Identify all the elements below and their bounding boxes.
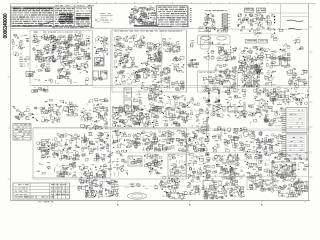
wire bus top right: [268, 4, 309, 50]
junction dots node B+: [274, 16, 275, 23]
output jacks cluster: [278, 178, 300, 198]
dual cap C21 C22 circles: [62, 105, 78, 116]
switch boxes bottom: [258, 177, 278, 192]
parts table T2 (light): [90, 5, 100, 28]
psu reg cluster: [104, 189, 119, 197]
meter box M1: [157, 26, 211, 49]
power amp star cluster: [238, 46, 263, 74]
preamp cluster: [80, 107, 108, 130]
frame F2 bottom cluster: [141, 80, 184, 92]
demod D2 cluster: [114, 52, 135, 68]
motor control cluster: [159, 176, 180, 190]
control logic boxes: [202, 178, 218, 199]
filter stage L1 C2 cluster: [33, 44, 57, 54]
psu wires: [125, 183, 159, 189]
revision table tick dots: [190, 8, 192, 22]
ceramic filter CF1 (dark): [146, 42, 162, 62]
IC U5 comb (pins): [282, 134, 308, 159]
headphone amp cluster: [239, 128, 263, 154]
dark cap pair bottom: [229, 187, 245, 198]
frame F2 header text: [114, 30, 182, 33]
filter switch cluster: [128, 153, 163, 174]
motor M1 with ellipse: [162, 189, 187, 200]
connector J2: [12, 42, 25, 51]
bias boxes row: [262, 44, 290, 68]
parts table T1 dark row: [76, 17, 90, 19]
record amp Q10 with can: [37, 137, 59, 158]
terminal strip boxes: [293, 181, 308, 193]
tape head input cluster: [12, 106, 37, 121]
label below frame F1: [31, 86, 108, 107]
psu filter dark cluster: [85, 190, 103, 198]
subcircuit frame F3: [33, 128, 187, 179]
connector comb J4: [13, 124, 31, 141]
input select boxes: [227, 104, 247, 118]
handwritten revision notes: [129, 6, 156, 26]
aux right cluster: [262, 134, 283, 160]
wire main rail A: [11, 28, 240, 29]
IF amp Q7 cluster: [163, 38, 180, 52]
driver stage left cluster: [203, 46, 237, 82]
wire rail B (double): [32, 86, 310, 88]
bias network R11 cluster: [34, 63, 50, 72]
AGC stage cluster: [73, 34, 90, 47]
trimmer VR1 cluster: [187, 59, 199, 68]
speaker relay cluster: [204, 85, 247, 107]
label group left: [19, 57, 30, 67]
parts table T1 rows right: [75, 8, 91, 26]
aux frame bottom right: [247, 177, 259, 190]
mixer stage cluster: [148, 87, 162, 111]
revision table T4 rows: [157, 7, 186, 25]
border frame left: [8, 4, 11, 201]
parts table T1 header strokes: [13, 8, 53, 9]
border frame bottom ruler: [11, 201, 311, 206]
driver cluster: [187, 97, 200, 106]
buffer boxes stacked: [124, 88, 142, 111]
divider line mid: [186, 30, 188, 92]
mains cable blob: [128, 193, 147, 199]
IF transformer box pair: [198, 35, 231, 45]
electrolytic C15 (dark): [26, 72, 33, 77]
component row above IF box: [206, 26, 228, 33]
wire rail D: [33, 177, 308, 178]
psu transformer cluster: [77, 178, 98, 191]
IC box U202 (hatched): [257, 8, 266, 13]
dolby block cluster: [112, 105, 159, 127]
aux cluster F3 left: [37, 162, 51, 174]
AM osc Q6 cluster: [133, 34, 146, 48]
balance pot cluster: [176, 130, 209, 153]
bias ladder R201-R205: [222, 13, 231, 28]
divider line x162: [162, 31, 236, 177]
selector cluster: [168, 153, 211, 178]
protection circuit cluster: [253, 87, 309, 106]
oscillator Q3 cluster: [56, 34, 72, 50]
parts table T1 rows left: [12, 8, 53, 26]
IC box U201 (hatched): [245, 8, 254, 13]
mixer Q4 cluster: [57, 50, 73, 64]
title block table: [13, 183, 70, 199]
power amp dark core: [241, 64, 260, 87]
label 2xBC337 group: [205, 9, 228, 12]
title text above parts table: [55, 4, 94, 7]
lamp circuit cluster: [204, 190, 227, 199]
tone control cluster 1: [112, 130, 141, 149]
wire rail C: [33, 128, 310, 129]
phono stage cluster: [248, 105, 269, 123]
junction dot column node N1: [53, 37, 54, 62]
svg-text:0006349000: 0006349000: [3, 13, 9, 38]
border frame top ruler: [11, 2, 316, 4]
line amp cluster: [159, 106, 193, 126]
connector J3: [13, 51, 22, 57]
drawing number below title block: [38, 200, 53, 203]
bias osc cluster: [57, 133, 80, 160]
meter driver cluster: [55, 162, 77, 178]
fuse cluster: [284, 152, 308, 178]
subcircuit frame F1: [30, 31, 93, 86]
eq network cluster: [40, 100, 76, 124]
note text below table: [53, 26, 94, 29]
mute circuit cluster: [115, 70, 141, 85]
switch S1 cluster: [94, 45, 107, 56]
push-pull pair Q203 Q204: [237, 13, 263, 26]
AM tuner Q5 cluster: [114, 36, 132, 51]
antenna connector J1: [12, 34, 29, 43]
IC U4 comb (pins): [282, 108, 308, 133]
output filter cluster: [286, 68, 307, 88]
IF stage Q2 cluster: [35, 52, 56, 62]
border frame right: [309, 4, 313, 201]
revision table T4 frame: [157, 6, 189, 26]
transistor pair Q201 Q202: [204, 13, 216, 27]
counter circuit cluster: [217, 178, 238, 191]
frame F1 bottom wires: [34, 78, 89, 86]
AGC stage 2 cluster: [73, 46, 90, 60]
audio pre cluster: [72, 59, 88, 73]
filter box FL1: [93, 70, 107, 81]
stereo decoder cluster: [171, 57, 184, 73]
detector D1 cluster with can: [57, 63, 71, 79]
inspection scribble: [24, 21, 54, 26]
feedback cluster: [265, 70, 276, 85]
parts table T1 stamp (dark): [59, 13, 74, 24]
parts table T1 rows mid: [54, 8, 73, 26]
op-amp U3 triangle: [211, 105, 226, 118]
parts table T3: [100, 13, 112, 23]
supply rail components: [240, 26, 308, 40]
playback amp with can: [78, 164, 107, 179]
parts table T1 frame: [11, 7, 92, 27]
solenoid cluster: [187, 177, 200, 195]
psu rectifier cluster: [99, 180, 119, 191]
handwritten underline row: [134, 25, 158, 26]
AF stage Q8 cluster: [135, 62, 151, 79]
AF stage Q9 cluster: [151, 64, 171, 81]
dark electrolytic pair: [222, 167, 235, 179]
input stage Q1 cluster: [33, 34, 58, 45]
relay K1 (dark box): [95, 58, 105, 67]
power switch cluster: [264, 152, 296, 178]
phone jack cluster: [240, 153, 263, 178]
ripple filter cluster: [267, 106, 283, 126]
tone control cluster 2: [141, 130, 174, 151]
cap chain cluster: [196, 108, 209, 133]
hatched box pair row2: [245, 39, 267, 43]
part number label (vertical): [3, 13, 9, 38]
muting transistor cluster: [212, 126, 239, 152]
loudness cluster: [108, 150, 128, 176]
decoupling block cluster: [95, 36, 108, 45]
frame F1 header text: [34, 31, 82, 34]
tone amp sub-frame: [198, 71, 238, 92]
switch bank cluster: [212, 154, 240, 179]
subcircuit frame F2: [111, 28, 209, 180]
output stage Q205: [264, 14, 274, 25]
level network cluster: [81, 132, 110, 161]
wire run lower right: [70, 111, 307, 186]
